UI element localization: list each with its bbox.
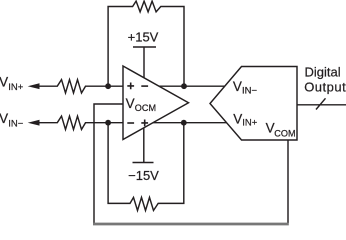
svg-text:IN−: IN−: [8, 119, 23, 130]
svg-text:V: V: [126, 96, 135, 111]
svg-text:V: V: [0, 75, 8, 90]
svg-text:V: V: [266, 121, 275, 136]
svg-text:V: V: [233, 111, 242, 126]
svg-text:V: V: [0, 111, 8, 126]
svg-text:Output: Output: [304, 80, 346, 95]
svg-text:IN−: IN−: [242, 85, 258, 96]
svg-text:IN+: IN+: [8, 82, 23, 93]
svg-text:−15V: −15V: [128, 168, 159, 183]
svg-text:OCM: OCM: [135, 103, 156, 113]
svg-text:+15V: +15V: [128, 30, 159, 45]
svg-text:V: V: [233, 79, 242, 94]
svg-text:IN+: IN+: [242, 118, 257, 129]
svg-text:COM: COM: [274, 128, 295, 138]
svg-text:Digital: Digital: [305, 64, 341, 79]
